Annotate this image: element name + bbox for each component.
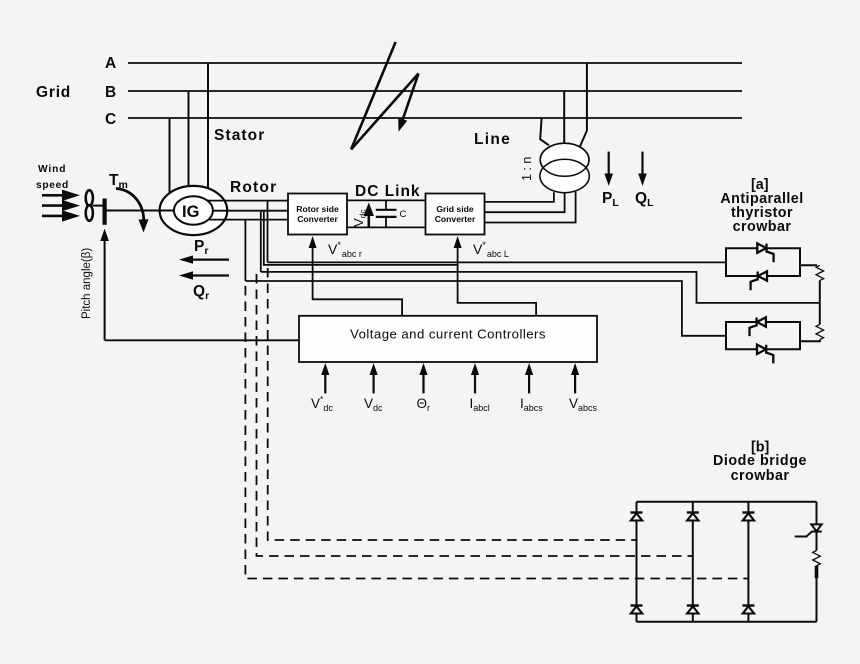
diode D3 [742, 513, 754, 521]
crowbar a resistor R1 [800, 265, 824, 324]
arrow Qr [179, 271, 229, 279]
arrow PL [604, 152, 613, 186]
svg-text:Rotor side: Rotor side [296, 204, 339, 214]
wire DC bus top [347, 199, 426, 201]
thyristor T2 on block1 bottom rail [751, 271, 767, 290]
wire transformer to grid converter 2 [485, 193, 565, 213]
arrow input theta r [419, 363, 427, 393]
svg-text:Stator: Stator [214, 127, 265, 144]
torque arc arrow Tm [116, 189, 149, 233]
diode D5 [687, 606, 699, 614]
svg-text:Rotor: Rotor [230, 179, 277, 196]
wire feedback line 1b tap [264, 211, 458, 265]
diode D6 [742, 606, 754, 614]
svg-text:Line: Line [474, 131, 511, 148]
arrow input Iabcl [471, 363, 479, 393]
bridge leg 1 [636, 502, 638, 622]
wire feedback line 1 to crowbar a top [268, 261, 727, 263]
wire phase line C [128, 117, 742, 119]
svg-text:Converter: Converter [297, 214, 338, 224]
capacitor C [376, 200, 407, 227]
svg-text:1 : n: 1 : n [520, 157, 534, 181]
rotor side converter box [288, 194, 347, 235]
wire stator drop from C [169, 118, 171, 194]
wire rotor tap 2 [260, 211, 262, 272]
wind arrow 2 [42, 200, 80, 211]
crowbar a block 2 frame [726, 322, 800, 349]
arrow input Iabcs [525, 363, 533, 393]
shaft wire [106, 210, 176, 212]
wire rotor tap 1 [267, 201, 269, 263]
wire rotor line 1 [208, 200, 288, 202]
arrow input V*dc [321, 363, 329, 393]
wire line C to transformer [540, 118, 549, 145]
crowbar a block 1 frame [726, 248, 800, 276]
diode D1 [631, 513, 643, 521]
fault lightning arrow [351, 42, 418, 149]
svg-text:C: C [400, 209, 407, 220]
voltage and current controllers box [299, 316, 597, 362]
bridge top rail [637, 501, 817, 503]
shaft into IG [160, 210, 174, 212]
pitch angle arrow [100, 229, 109, 341]
grid side converter box [426, 194, 485, 235]
thyristor T4 on block2 bottom rail [757, 345, 773, 364]
wire feedback line 3 to crowbar a bottom [245, 281, 726, 336]
thyristor T3 on block2 top rail [750, 317, 766, 336]
svg-text:DC Link: DC Link [355, 183, 421, 200]
dashed wire rotor to bridge leg 3 [245, 286, 748, 579]
crowbar a resistor R2 [800, 324, 824, 341]
bridge bottom rail [637, 621, 817, 623]
arrow V*abc L reference into grid converter [454, 236, 536, 316]
wire line A to transformer [580, 63, 587, 147]
wire line B to transformer [563, 91, 565, 143]
turbine hub bar [102, 199, 106, 225]
wind arrow 3 [42, 210, 80, 221]
svg-text:Pitch angle(β): Pitch angle(β) [81, 248, 93, 319]
wire rotor line 3 [208, 219, 288, 221]
arrow Pr [179, 255, 229, 263]
wire phase line B [128, 90, 742, 92]
svg-text:Grid: Grid [36, 84, 71, 101]
wire feedback line 2 to resistor junction [261, 272, 820, 303]
arrow Vdc [364, 203, 374, 227]
wire rotor line 2 [213, 210, 288, 212]
diode D4 [631, 606, 643, 614]
svg-text:Diode bridge: Diode bridge [713, 453, 807, 469]
arrow V*abc r reference into rotor converter [309, 236, 403, 316]
wind arrow 1 [42, 190, 80, 201]
thyristor T1 on block1 top rail [757, 243, 773, 262]
bridge right branch thyristor T5 [795, 502, 822, 551]
wire phase line A [128, 62, 742, 64]
svg-text:Wind: Wind [38, 164, 66, 175]
induction generator IG [160, 186, 228, 235]
bridge leg 3 [747, 502, 749, 622]
diode D2 [687, 513, 699, 521]
svg-text:Voltage and current Controller: Voltage and current Controllers [350, 327, 546, 342]
svg-text:Converter: Converter [435, 214, 476, 224]
bridge resistor R3 [813, 551, 821, 622]
svg-text:crowbar: crowbar [733, 219, 792, 235]
dashed wire rotor to bridge leg 1 [268, 268, 637, 540]
arrow input Vabcs [571, 363, 579, 393]
wire pitch feedback to controllers [105, 339, 299, 341]
arrow QL [638, 152, 647, 186]
svg-text:B: B [105, 84, 116, 101]
wire rotor tap 3 [244, 220, 246, 281]
svg-text:Grid side: Grid side [436, 204, 473, 214]
svg-text:crowbar: crowbar [731, 468, 790, 484]
wire transformer to grid converter 3 [485, 192, 576, 223]
wire transformer to grid converter 1 [485, 192, 554, 202]
arrow input Vdc [370, 363, 378, 393]
dashed wire rotor to bridge leg 2 [257, 274, 693, 556]
bridge leg 2 [692, 502, 694, 622]
wire stator drop from A [207, 63, 209, 190]
svg-text:A: A [105, 55, 116, 72]
svg-text:speed: speed [36, 180, 69, 191]
turbine blades [86, 190, 104, 221]
wire DC bus bottom [347, 226, 426, 228]
wire stator drop from B [188, 91, 190, 188]
svg-text:IG: IG [182, 203, 199, 221]
svg-text:C: C [105, 111, 116, 128]
transformer 1:n [540, 143, 589, 192]
